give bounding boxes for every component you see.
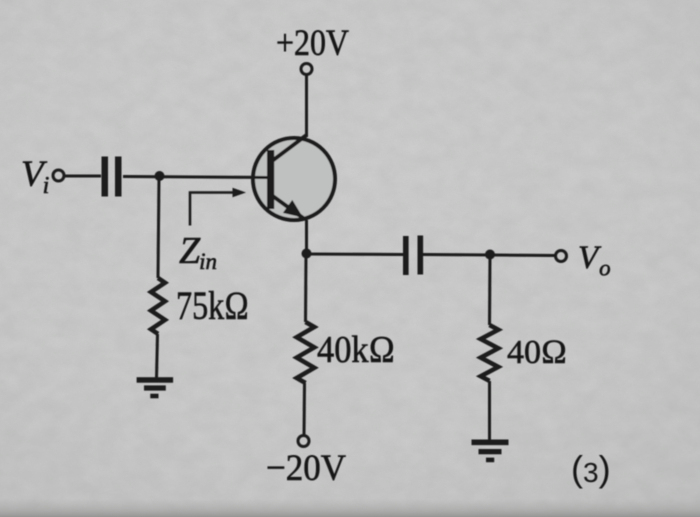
svg-text:40kΩ: 40kΩ — [317, 329, 395, 371]
svg-text:40Ω: 40Ω — [507, 334, 567, 371]
svg-text:−20V: −20V — [266, 448, 346, 489]
svg-text:+20V: +20V — [276, 23, 349, 64]
svg-text:75kΩ: 75kΩ — [176, 283, 249, 328]
